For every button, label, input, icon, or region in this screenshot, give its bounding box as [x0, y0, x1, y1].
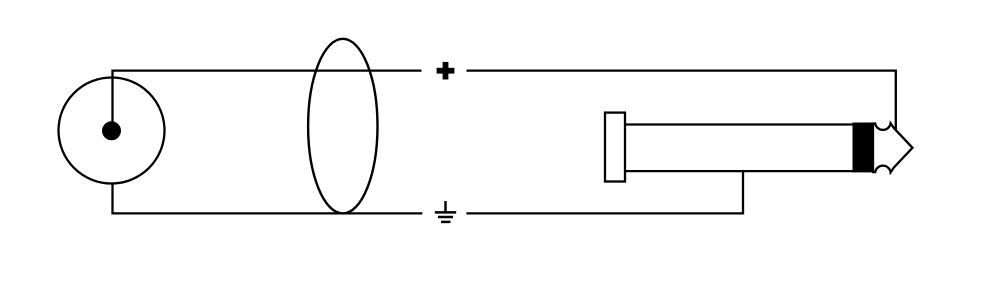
- connector J2 jack tip outline: [873, 123, 913, 172]
- wire ground: RCA shell down and right to ground-symbol gap: [113, 183, 423, 213]
- connector J2 jack barrel bottom line: [625, 170, 854, 172]
- connector J2 jack back cap: [605, 113, 625, 182]
- wire hot: plus gap to right end, down to jack tip: [467, 71, 896, 131]
- connector J1 RCA shell circle: [59, 78, 165, 184]
- wire ground: ground-symbol gap right to jack sleeve: [466, 171, 743, 214]
- label plus (hot conductor): [437, 62, 455, 80]
- connector J2 jack barrel top line: [625, 123, 854, 125]
- ground symbol: [435, 201, 456, 222]
- wire hot: RCA pin up and right to plus gap: [113, 71, 422, 131]
- connector J2 jack insulator ring (black): [853, 123, 875, 173]
- cable shield ellipse: [308, 39, 377, 214]
- connector J1 RCA center pin dot: [102, 121, 121, 140]
